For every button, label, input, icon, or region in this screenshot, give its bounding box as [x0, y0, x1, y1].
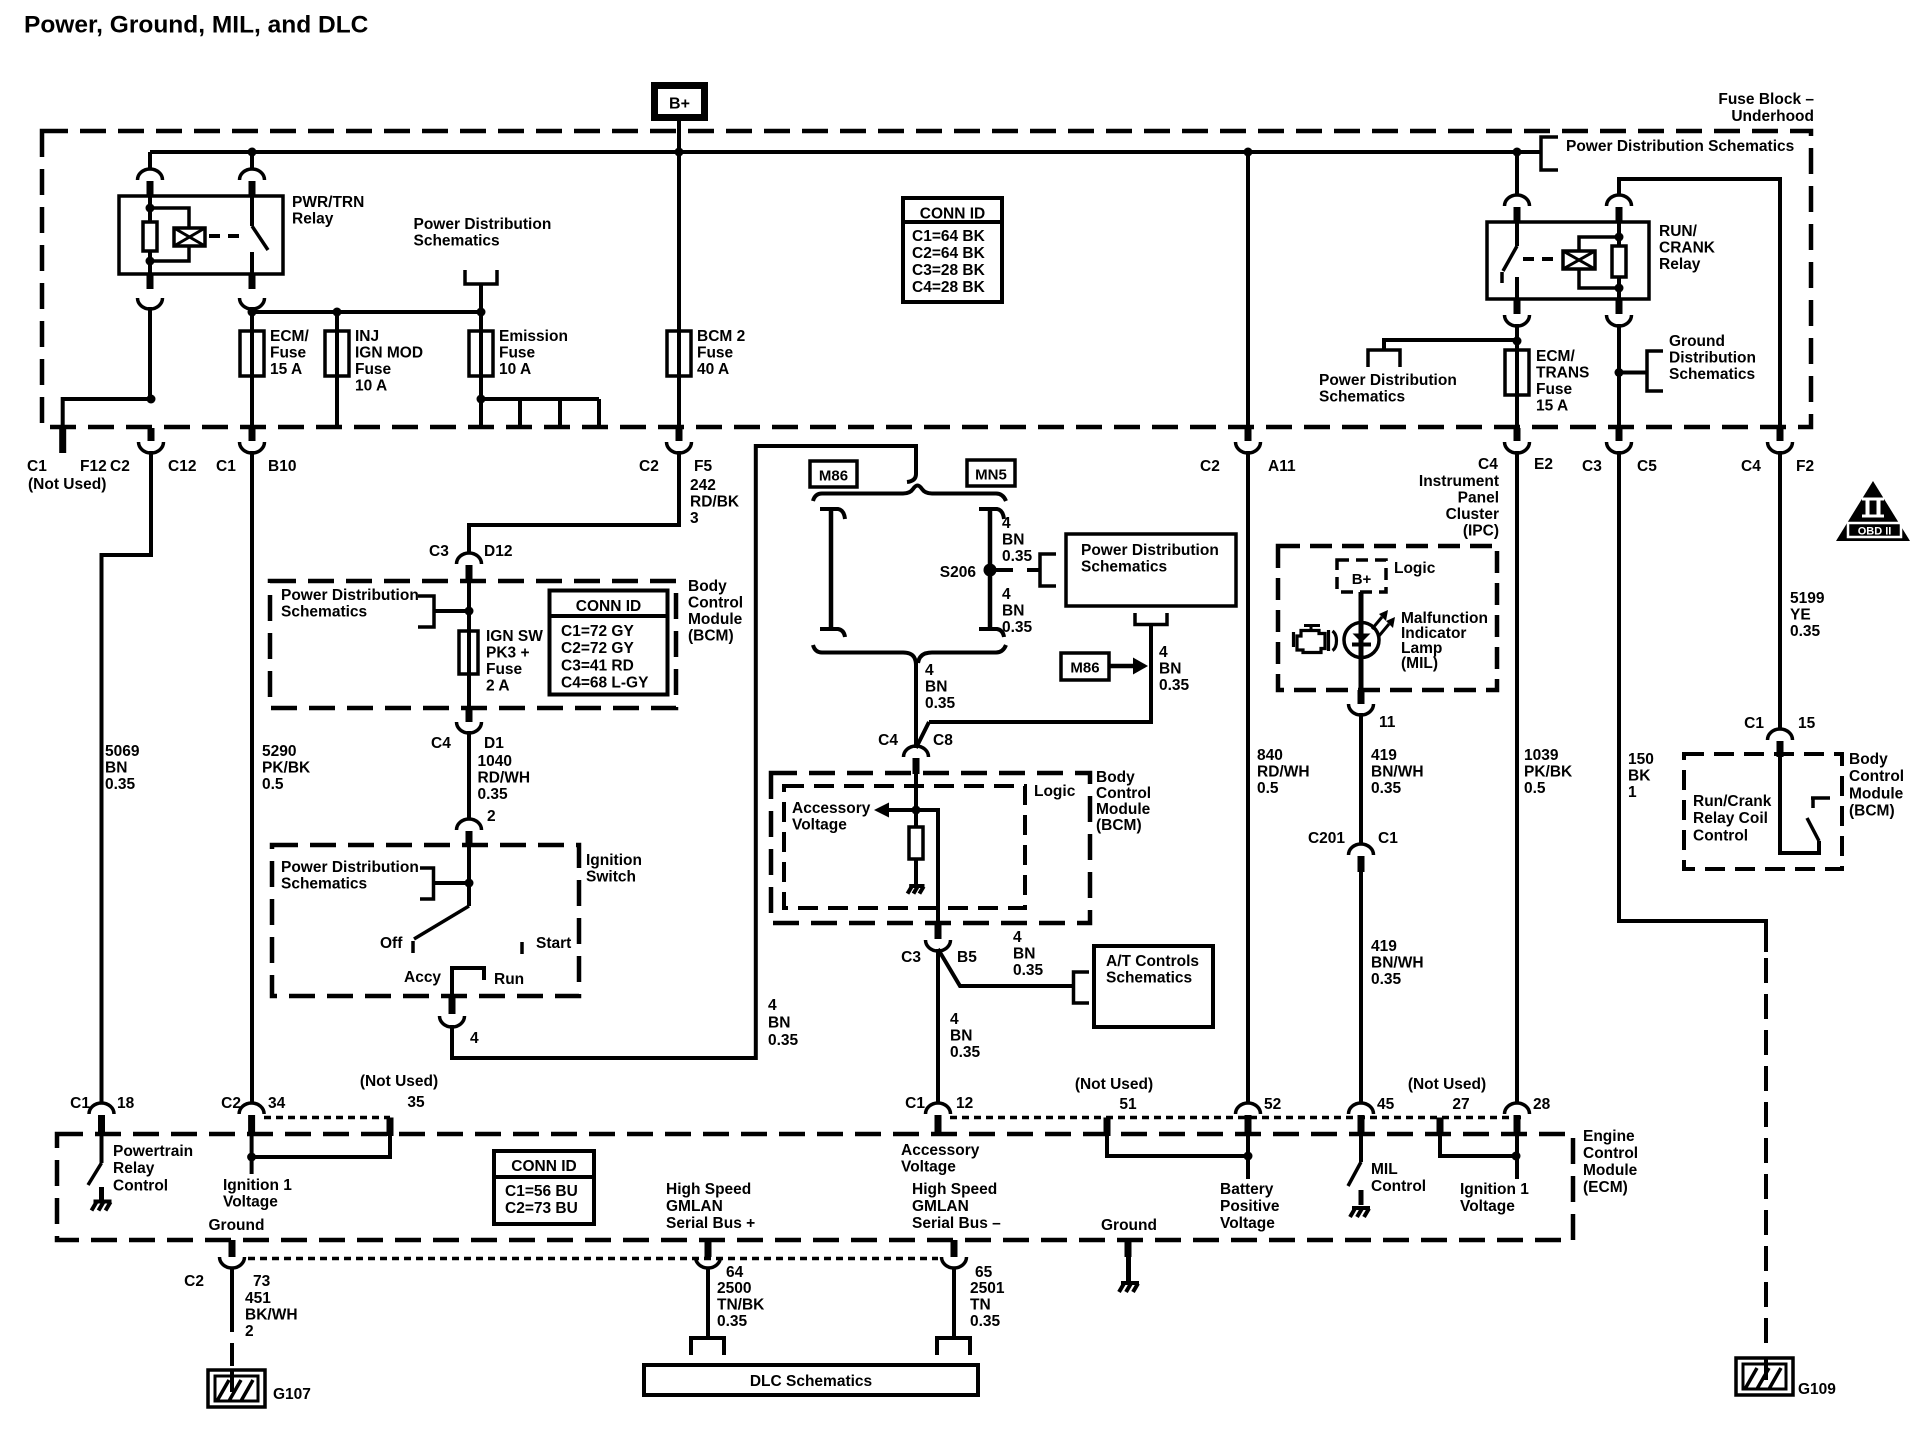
svg-text:(BCM): (BCM) [1096, 817, 1142, 834]
svg-text:28: 28 [1533, 1096, 1551, 1113]
svg-text:B10: B10 [268, 458, 296, 475]
diode MIL triangle [1353, 634, 1371, 643]
pin stub C1/F12 not used [59, 428, 66, 453]
svg-text:Relay: Relay [1659, 256, 1701, 273]
wire dashed ground run to G107 [230, 1343, 234, 1366]
connector arc ECM C1/18 [89, 1103, 114, 1114]
svg-text:0.35: 0.35 [1002, 619, 1033, 636]
svg-text:Logic: Logic [1034, 783, 1076, 800]
svg-text:Schematics: Schematics [281, 603, 367, 620]
wire ignition PDS stem [434, 881, 470, 885]
stub powertrain relay control ground [99, 1187, 104, 1201]
pin stub PWR/TRN coil bottom [147, 274, 154, 289]
svg-text:15 A: 15 A [1536, 397, 1568, 414]
lamp MIL LED circle [1344, 623, 1379, 658]
svg-text:C3: C3 [901, 949, 921, 966]
svg-text:4: 4 [1013, 929, 1022, 946]
dotted connector line 34-35 [264, 1116, 390, 1120]
svg-text:Engine: Engine [1583, 1128, 1635, 1145]
wire 419 C201 to ECM 45 [1359, 871, 1363, 1104]
svg-text:4: 4 [925, 662, 934, 679]
pin stub C1/B10 [249, 428, 256, 441]
svg-text:Power Distribution: Power Distribution [281, 587, 419, 604]
ground G109 hatches [1745, 1368, 1757, 1389]
svg-text:0.35: 0.35 [1159, 677, 1190, 694]
contact BCM driver [1811, 796, 1830, 800]
wire ignition feed [467, 845, 471, 906]
svg-text:C1=64 BK: C1=64 BK [912, 228, 986, 245]
svg-text:Accessory: Accessory [792, 800, 871, 817]
bracket power distribution feed [465, 270, 497, 284]
svg-text:C2: C2 [1200, 458, 1220, 475]
svg-text:2: 2 [487, 808, 496, 825]
svg-text:E2: E2 [1534, 456, 1553, 473]
wire 451 to G107 [230, 1267, 234, 1332]
pin stub PWR/TRN switch bottom [249, 274, 256, 289]
node ignition PDS junction [465, 879, 474, 888]
pin stub D1 [466, 709, 473, 722]
wire INJ fuse drop [335, 312, 339, 429]
svg-text:2500: 2500 [717, 1280, 751, 1297]
svg-text:Module: Module [1849, 785, 1904, 802]
svg-text:0.5: 0.5 [1257, 780, 1279, 797]
svg-text:150: 150 [1628, 751, 1654, 768]
wire BCM PDS stem [434, 609, 469, 613]
BCM U3 dashed box [1684, 754, 1842, 869]
wire ECM ground [1126, 1257, 1131, 1282]
wire branch to F12 stub [63, 399, 151, 429]
svg-text:Underhood: Underhood [1731, 108, 1814, 125]
svg-text:C1: C1 [216, 458, 236, 475]
pin stub ECM 52 [1245, 1115, 1252, 1136]
svg-text:RD/BK: RD/BK [690, 493, 740, 510]
svg-text:52: 52 [1264, 1096, 1281, 1113]
svg-text:TRANS: TRANS [1536, 364, 1589, 381]
svg-text:419: 419 [1371, 747, 1397, 764]
svg-text:(ECM): (ECM) [1583, 1179, 1628, 1196]
svg-text:C3: C3 [1582, 458, 1602, 475]
svg-text:GMLAN: GMLAN [912, 1198, 969, 1215]
svg-text:242: 242 [690, 477, 716, 494]
pin stub ECM ground [1125, 1240, 1132, 1257]
svg-text:0.35: 0.35 [717, 1313, 748, 1330]
wire connector row to C4/C8 [914, 660, 918, 748]
svg-text:0.35: 0.35 [970, 1313, 1001, 1330]
svg-text:12: 12 [956, 1095, 973, 1112]
wire bus to PDS bracket top right [1517, 150, 1541, 154]
bracket DLC minus [937, 1338, 970, 1355]
wire 840 A11 to ECM 52 [1246, 451, 1250, 1104]
relay K1 PWR/TRN box [119, 196, 283, 274]
svg-text:Accessory: Accessory [901, 1142, 980, 1159]
svg-text:BN: BN [105, 759, 127, 776]
svg-text:C2=72 GY: C2=72 GY [561, 640, 634, 657]
fuse F2 INJ IGN MOD 10A [325, 331, 349, 376]
svg-text:Run/Crank: Run/Crank [1693, 793, 1772, 810]
svg-text:Run: Run [494, 971, 524, 988]
switch blade RUN/CRANK [1503, 246, 1517, 271]
svg-text:C4: C4 [1741, 458, 1761, 475]
svg-text:C2: C2 [184, 1273, 204, 1290]
engine icon MIL [1304, 626, 1320, 631]
node PDS junction E2 branch [1513, 337, 1522, 346]
resistor BCM internal [909, 827, 923, 859]
B+ logic dashed box [1337, 560, 1386, 592]
svg-text:BN: BN [1002, 531, 1024, 548]
node PWR/TRN coil top [146, 204, 155, 213]
svg-text:Relay: Relay [292, 210, 334, 227]
svg-text:Panel: Panel [1458, 489, 1499, 506]
connector arc PWR/TRN coil bottom [138, 298, 163, 309]
svg-text:ECM/: ECM/ [270, 328, 309, 345]
node comb junction [477, 395, 486, 404]
svg-text:D12: D12 [484, 543, 512, 560]
svg-text:(BCM): (BCM) [688, 627, 734, 644]
pin stub ECM 64 [705, 1240, 712, 1257]
relay K2 RUN/CRANK box [1487, 222, 1649, 299]
svg-text:0.35: 0.35 [478, 786, 509, 803]
switch blade PWR/TRN [252, 226, 268, 250]
connector arc C3/C5 [1607, 442, 1632, 453]
pin stub ECM 34 [248, 1115, 255, 1136]
Power Distribution Schematics box [1066, 534, 1236, 606]
wire PWR/TRN switch to fuse bus [250, 307, 254, 428]
svg-text:C1: C1 [905, 1095, 925, 1112]
svg-text:0.35: 0.35 [105, 776, 136, 793]
bus bar left [829, 509, 834, 629]
wire PWR/TRN coil internal bottom [148, 251, 152, 274]
wire pin 51 jog [1107, 1136, 1248, 1156]
bus bar right [988, 509, 993, 629]
bracket ignition PDS reference [420, 868, 434, 899]
wire 5290 B10 to ECM 34 [250, 451, 254, 1104]
svg-text:10 A: 10 A [355, 377, 387, 394]
svg-text:RD/WH: RD/WH [478, 769, 531, 786]
wire PWR/TRN switch internal bottom [250, 252, 254, 274]
svg-text:F2: F2 [1796, 458, 1814, 475]
connector arc PWR/TRN coil top [138, 169, 163, 180]
node fuse bus left [248, 308, 257, 317]
svg-text:Ground: Ground [1101, 1217, 1157, 1234]
connector arc ECM 64 [696, 1257, 721, 1268]
fuse F5 ECM TRANS 15A [1505, 350, 1529, 395]
svg-text:F12: F12 [80, 458, 107, 475]
svg-text:Body: Body [1849, 751, 1888, 768]
svg-text:C1: C1 [27, 458, 47, 475]
svg-text:Ground: Ground [209, 1217, 265, 1234]
connector arc PWR/TRN switch bottom [240, 298, 265, 309]
node ground distribution junction [1615, 368, 1624, 377]
svg-text:BN: BN [768, 1014, 790, 1031]
wire powertrain relay control [100, 1136, 104, 1163]
stub MIL control ground [1359, 1190, 1364, 1205]
svg-text:BN: BN [950, 1027, 972, 1044]
svg-text:IGN MOD: IGN MOD [355, 344, 423, 361]
svg-text:BN/WH: BN/WH [1371, 763, 1424, 780]
CONN ID box ECM [494, 1151, 594, 1224]
connector arc C2/A11 [1236, 442, 1261, 453]
pin stub C3/C5 [1616, 428, 1623, 441]
svg-text:CRANK: CRANK [1659, 239, 1716, 256]
pin stub C201 [1358, 856, 1365, 872]
svg-text:Fuse: Fuse [697, 344, 734, 361]
DLC Schematics box [644, 1365, 978, 1395]
connector arc BCM C1/15 [1768, 729, 1793, 740]
coil RUN/CRANK winding box [1563, 251, 1595, 269]
CONN ID box fuse block [903, 198, 1002, 302]
svg-text:OBD II: OBD II [1858, 526, 1892, 538]
OBD II label box [1848, 523, 1901, 537]
connector arc C2/F5 [667, 442, 692, 453]
svg-text:High Speed: High Speed [912, 1181, 997, 1198]
wire ignition1 voltage 34 [250, 1136, 254, 1174]
coil RUN/CRANK winding X [1563, 251, 1595, 269]
wire RUN/CRANK coil feed from F2 [1619, 179, 1780, 428]
svg-text:Power, Ground, MIL, and DLC: Power, Ground, MIL, and DLC [24, 12, 369, 39]
svg-text:C12: C12 [168, 458, 196, 475]
svg-text:PWR/TRN: PWR/TRN [292, 194, 364, 211]
node RUN/CRANK coil bottom [1615, 284, 1624, 293]
svg-text:C201: C201 [1308, 830, 1345, 847]
svg-text:INJ: INJ [355, 328, 379, 345]
svg-text:C3=28 BK: C3=28 BK [912, 262, 986, 279]
wire hook into connector row [907, 444, 916, 482]
svg-text:Schematics: Schematics [414, 232, 500, 249]
node bus B+ junction [675, 148, 684, 157]
ground G107 hatches [217, 1380, 229, 1401]
svg-text:C2: C2 [639, 458, 659, 475]
wire into accessory node [914, 771, 918, 827]
svg-text:Logic: Logic [1394, 560, 1436, 577]
svg-text:45: 45 [1377, 1096, 1395, 1113]
svg-text:Serial Bus –: Serial Bus – [912, 1215, 1001, 1232]
pin stub C2/F5 [676, 428, 683, 441]
BCM logic dashed box [784, 786, 1025, 908]
svg-text:F5: F5 [694, 458, 712, 475]
svg-text:DLC Schematics: DLC Schematics [750, 1373, 872, 1390]
pin stub ignition pin 2 [466, 831, 473, 847]
wire relay coil output jog [148, 307, 152, 399]
connector row top rail [813, 486, 1006, 502]
svg-text:PK3 +: PK3 + [486, 644, 530, 661]
wire diagonal into C4/C8 [916, 722, 929, 748]
CONN ID separator fuse block [903, 220, 1002, 224]
svg-text:15 A: 15 A [270, 361, 302, 378]
svg-text:0.35: 0.35 [1371, 780, 1402, 797]
pin stub ECM 18 [98, 1115, 105, 1136]
svg-text:C5: C5 [1637, 458, 1657, 475]
wire D12 to fuse [467, 581, 471, 709]
svg-text:D1: D1 [484, 735, 504, 752]
connector M86 reference tag [1061, 653, 1109, 680]
svg-text:M86: M86 [819, 468, 848, 485]
node pin52 junction [1244, 1152, 1253, 1161]
pin stub C3/B5 [935, 924, 942, 939]
svg-text:A/T Controls: A/T Controls [1106, 953, 1199, 970]
svg-text:(Not Used): (Not Used) [1075, 1076, 1153, 1093]
svg-text:CONN ID: CONN ID [920, 206, 985, 223]
svg-text:BK/WH: BK/WH [245, 1306, 298, 1323]
svg-text:PK/BK: PK/BK [262, 759, 311, 776]
svg-text:10 A: 10 A [499, 361, 531, 378]
svg-text:Module: Module [688, 611, 743, 628]
connector arc ECM 45 [1349, 1103, 1374, 1114]
svg-text:5069: 5069 [105, 743, 140, 760]
svg-text:TN/BK: TN/BK [717, 1296, 765, 1313]
svg-text:Accy: Accy [404, 969, 441, 986]
connector arc ECM C1/12 [926, 1103, 951, 1114]
wire 242 F5 to D12 [469, 451, 679, 554]
svg-text:51: 51 [1119, 1096, 1137, 1113]
wire A11 feed vertical [1246, 152, 1250, 428]
wire comb prong 1 [479, 399, 483, 429]
contact tick Off [411, 941, 415, 953]
node accessory voltage [912, 806, 921, 815]
pin stub RUN/CRANK coil top [1616, 207, 1623, 223]
pin stub IPC 11 [1358, 690, 1365, 704]
svg-text:C4: C4 [878, 732, 898, 749]
connector arc C4/F2 [1768, 442, 1793, 453]
ground ECM rake bottom [1121, 1281, 1139, 1285]
svg-text:BCM 2: BCM 2 [697, 328, 745, 345]
svg-text:4: 4 [1159, 644, 1168, 661]
svg-text:(Not Used): (Not Used) [360, 1073, 438, 1090]
wire BCM driver [1780, 756, 1819, 853]
svg-text:Positive: Positive [1220, 1198, 1280, 1215]
node PWR/TRN coil bottom [146, 257, 155, 266]
svg-text:Control: Control [1096, 785, 1151, 802]
svg-text:CONN ID: CONN ID [511, 1158, 576, 1175]
svg-text:(Not Used): (Not Used) [1408, 1076, 1486, 1093]
switch blade BCM driver [1807, 818, 1819, 841]
wire battery positive voltage [1246, 1136, 1250, 1179]
wire MIL control [1359, 1136, 1363, 1162]
wire B5 to ECM 12 [936, 949, 940, 1104]
wire RUN/CRANK switch to ECM TRANS fuse [1515, 324, 1519, 428]
svg-text:Schematics: Schematics [281, 875, 367, 892]
pin stub ECM 51 [1104, 1118, 1111, 1137]
wire PWR/TRN coil jumper [150, 208, 189, 228]
svg-text:Cluster: Cluster [1446, 506, 1499, 523]
svg-text:Schematics: Schematics [1106, 969, 1192, 986]
pin stub D12 [466, 565, 473, 582]
svg-text:Power Distribution: Power Distribution [1081, 542, 1219, 559]
bus wire top horizontal [150, 150, 1541, 154]
svg-text:0.35: 0.35 [925, 695, 956, 712]
svg-text:11: 11 [1379, 714, 1396, 731]
fuse F3 Emission 10A [469, 331, 493, 376]
pin stub ECM 65 [951, 1240, 958, 1257]
svg-text:C4: C4 [431, 735, 451, 752]
svg-text:4: 4 [1002, 515, 1011, 532]
pin stub RUN/CRANK switch bottom [1514, 299, 1521, 314]
connector arc RUN/CRANK coil top [1607, 195, 1632, 206]
switch blade ignition [414, 906, 469, 939]
connector arc IPC 11 [1349, 704, 1374, 715]
svg-text:Control: Control [688, 594, 743, 611]
svg-text:Voltage: Voltage [1220, 1215, 1275, 1232]
wire ignition1 voltage 28 [1515, 1136, 1519, 1179]
svg-text:Body: Body [688, 578, 727, 595]
svg-text:4: 4 [470, 1030, 479, 1047]
wire PWR/TRN coil jumper bottom [150, 246, 189, 261]
connector arc C4/C8 [904, 746, 929, 757]
pin stub PWR/TRN coil top [147, 181, 154, 197]
svg-text:4: 4 [768, 997, 777, 1014]
svg-text:BN: BN [1002, 602, 1024, 619]
bracket PDS reference run/crank [1368, 350, 1400, 367]
svg-text:Voltage: Voltage [223, 1193, 278, 1210]
svg-text:C4: C4 [1478, 456, 1498, 473]
BCM U2 outer dashed box [771, 773, 1090, 923]
switch blade MIL control [1348, 1162, 1361, 1186]
OBD II roman numeral [1862, 499, 1884, 516]
svg-text:High Speed: High Speed [666, 1181, 751, 1198]
wire bus to RUN/CRANK switch pin [1515, 152, 1519, 196]
connector arc C2/73 [220, 1257, 245, 1268]
svg-text:2 A: 2 A [486, 677, 510, 694]
svg-text:M86: M86 [1070, 660, 1099, 677]
svg-text:Powertrain: Powertrain [113, 1143, 193, 1160]
ECM dashed box [57, 1134, 1573, 1240]
svg-text:Fuse: Fuse [270, 344, 307, 361]
svg-text:Serial Bus +: Serial Bus + [666, 1215, 755, 1232]
svg-text:Schematics: Schematics [1669, 366, 1755, 383]
wire bracket stem to emission bus [479, 284, 483, 399]
svg-text:C3=41 RD: C3=41 RD [561, 657, 634, 674]
svg-text:RD/WH: RD/WH [1257, 763, 1310, 780]
connector arc RUN/CRANK switch bottom [1505, 315, 1530, 326]
connector arc C3/D12 [457, 553, 482, 564]
pin stub ECM 27 [1437, 1118, 1444, 1137]
wire B+ to BCM2 fuse [677, 152, 681, 428]
svg-text:Start: Start [536, 935, 571, 952]
svg-text:1040: 1040 [478, 753, 512, 770]
svg-text:TN: TN [970, 1296, 991, 1313]
IPC dashed box [1278, 546, 1497, 690]
svg-text:Switch: Switch [586, 868, 636, 885]
CONN ID separator ECM [494, 1175, 594, 1179]
A/T Controls Schematics box [1094, 946, 1213, 1027]
svg-text:Control: Control [1583, 1145, 1638, 1162]
bus bar left cap bottom [820, 629, 845, 637]
connector arc ECM 65 [942, 1257, 967, 1268]
svg-text:B5: B5 [957, 949, 977, 966]
OBD II triangle [1836, 481, 1910, 541]
svg-text:Power Distribution: Power Distribution [1319, 372, 1457, 389]
connector row bottom rail [813, 645, 916, 665]
svg-text:BN/WH: BN/WH [1371, 954, 1424, 971]
node bus RUN/CRANK junction [1513, 148, 1522, 157]
svg-text:2501: 2501 [970, 1280, 1005, 1297]
wire dashed ground run to G109 [1764, 958, 1768, 1350]
pin stub ECM ground 73 [229, 1240, 236, 1257]
svg-text:CONN ID: CONN ID [576, 598, 641, 615]
svg-text:C3: C3 [429, 543, 449, 560]
wire pin 35 jog [252, 1136, 390, 1157]
contact tick Start [520, 942, 524, 954]
svg-text:64: 64 [726, 1264, 744, 1281]
svg-text:40 A: 40 A [697, 361, 729, 378]
svg-text:Fuse: Fuse [499, 344, 536, 361]
wire 419 IPC to C201 [1359, 713, 1363, 845]
svg-text:Voltage: Voltage [792, 816, 847, 833]
connector arc C4/D1 [457, 722, 482, 733]
bracket PDS reference top right [1541, 137, 1558, 170]
pin stub ECM 35 [387, 1118, 394, 1137]
wire 2501 to DLC [952, 1267, 956, 1338]
svg-text:(MIL): (MIL) [1401, 655, 1438, 672]
